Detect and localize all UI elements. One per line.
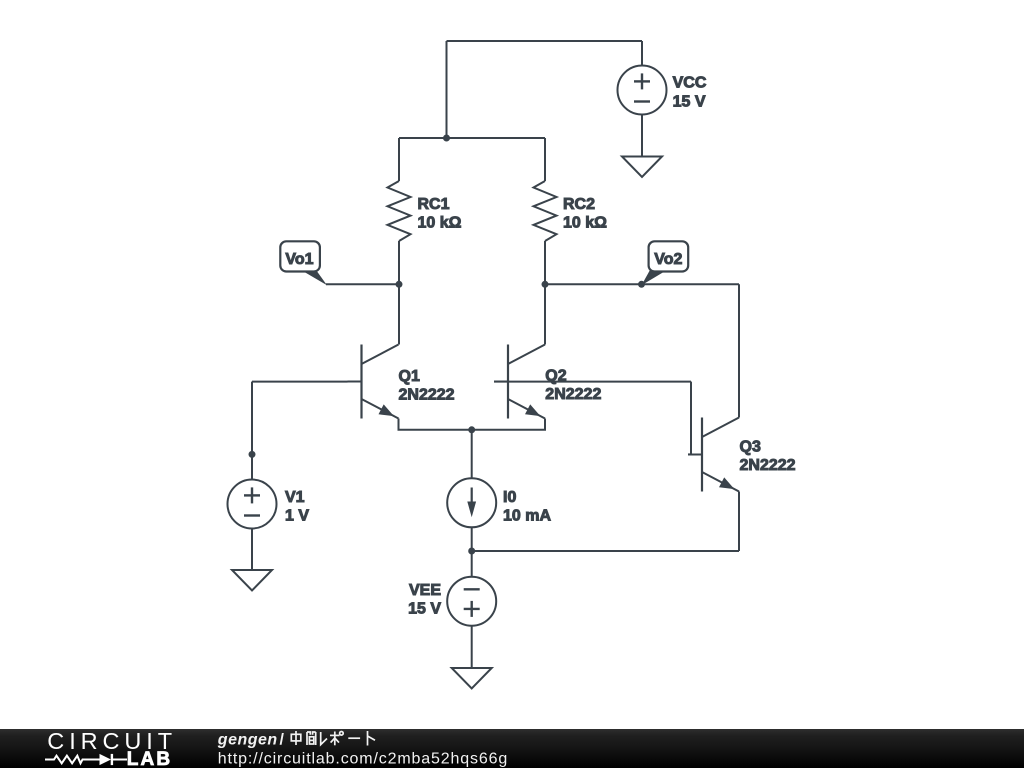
svg-text:http://circuitlab.com/c2mba52h: http://circuitlab.com/c2mba52hqs66g bbox=[218, 750, 508, 767]
svg-text:1 V: 1 V bbox=[285, 507, 309, 524]
svg-text:10 kΩ: 10 kΩ bbox=[418, 214, 462, 231]
node junction top rail bbox=[443, 135, 450, 142]
wire top rail VCC bbox=[447, 40, 643, 42]
wire tail rail bbox=[472, 550, 739, 552]
wire RC2 to Q2 collector bbox=[544, 241, 546, 345]
wire RC1 top bbox=[398, 138, 400, 181]
wire Q1 emitter bbox=[399, 419, 472, 430]
svg-text:VEE: VEE bbox=[409, 582, 441, 599]
wire V1 drop bbox=[251, 382, 253, 455]
wire Q2 base to Q3 bbox=[494, 381, 691, 383]
footer bar bbox=[0, 729, 1024, 768]
node Vo2 tap bbox=[638, 281, 645, 288]
svg-text:Q1: Q1 bbox=[399, 368, 420, 385]
svg-text:LAB: LAB bbox=[127, 749, 173, 768]
svg-text:VCC: VCC bbox=[673, 75, 707, 92]
node tail rail bbox=[468, 548, 475, 555]
wire RC1 to Q1 collector bbox=[398, 241, 400, 345]
svg-text:Vo1: Vo1 bbox=[285, 251, 313, 268]
svg-text:gengen: gengen bbox=[217, 731, 278, 748]
node V1 top bbox=[249, 451, 256, 458]
flag Vo1 bbox=[280, 241, 327, 285]
svg-text:Q3: Q3 bbox=[740, 439, 761, 456]
svg-text:10 kΩ: 10 kΩ bbox=[563, 214, 607, 231]
wire Q2 emitter bbox=[472, 419, 545, 430]
transistor Q2 bbox=[494, 345, 545, 419]
svg-text:15 V: 15 V bbox=[408, 600, 441, 617]
svg-text:I0: I0 bbox=[503, 489, 516, 506]
flag Vo2 bbox=[642, 241, 689, 285]
wire Vo1 tap bbox=[326, 283, 399, 285]
wire collector rail bbox=[399, 137, 545, 139]
svg-text:V1: V1 bbox=[285, 489, 305, 506]
transistor Q1 bbox=[348, 345, 399, 419]
source I0 bbox=[447, 430, 551, 551]
svg-text:10 mA: 10 mA bbox=[503, 507, 551, 524]
logo diode symbol bbox=[100, 754, 112, 765]
svg-text:RC2: RC2 bbox=[563, 196, 595, 213]
label Q2 bbox=[545, 368, 601, 404]
source VCC bbox=[618, 41, 707, 157]
ground VEE bbox=[452, 668, 492, 689]
transistor Q3 bbox=[688, 418, 739, 492]
svg-text:2N2222: 2N2222 bbox=[545, 386, 601, 403]
node common emitter bbox=[468, 426, 475, 433]
resistor RC2 bbox=[534, 181, 608, 241]
logo resistor zigzag bbox=[45, 756, 100, 764]
node Vo1 tap bbox=[396, 281, 403, 288]
wire top rail drop bbox=[446, 41, 448, 138]
svg-text:2N2222: 2N2222 bbox=[399, 386, 455, 403]
ground VCC bbox=[622, 157, 662, 178]
svg-text:/: / bbox=[280, 731, 285, 748]
svg-text:RC1: RC1 bbox=[418, 196, 450, 213]
svg-text:Vo2: Vo2 bbox=[654, 251, 682, 268]
wire Q3 emitter drop bbox=[738, 492, 740, 552]
wire Q3 collector drop bbox=[738, 284, 740, 417]
node Vo2 rail left bbox=[542, 281, 549, 288]
resistor RC1 bbox=[388, 181, 462, 241]
svg-text:15 V: 15 V bbox=[673, 93, 706, 110]
wire Q1 base bbox=[252, 381, 348, 383]
wire Vo2 rail bbox=[545, 283, 739, 285]
label Q1 bbox=[399, 368, 455, 403]
source V1 bbox=[228, 454, 310, 570]
label Q3 bbox=[740, 439, 796, 475]
ground V1 bbox=[232, 570, 272, 591]
source VEE bbox=[408, 551, 496, 668]
wire RC2 top bbox=[544, 138, 546, 181]
footer title japanese glyphs bbox=[291, 731, 375, 746]
svg-text:2N2222: 2N2222 bbox=[740, 457, 796, 474]
